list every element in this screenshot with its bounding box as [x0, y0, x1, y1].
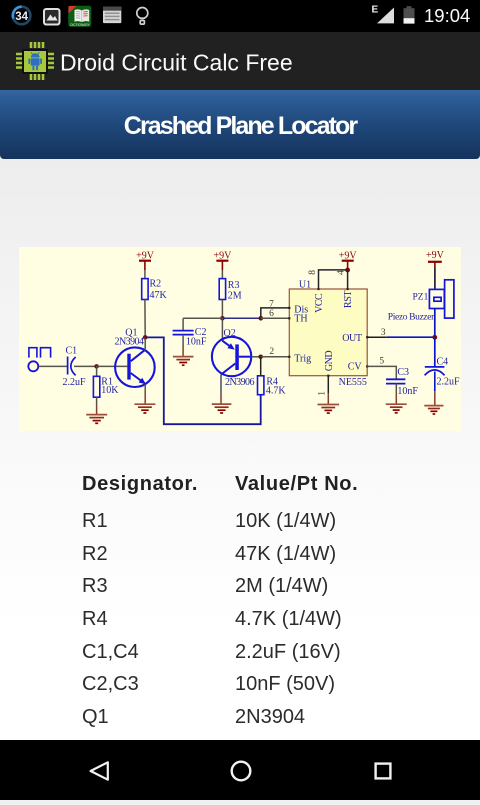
svg-text:1: 1	[317, 391, 327, 396]
app bar	[0, 32, 480, 90]
svg-text:U1: U1	[299, 279, 311, 290]
wire pin 3 OUT	[367, 336, 387, 338]
svg-text:34: 34	[15, 11, 28, 23]
input square-wave symbol	[29, 348, 51, 358]
svg-text:C3: C3	[397, 367, 409, 378]
svg-text:VCC: VCC	[314, 293, 325, 313]
wire +9V to pin 8 VCC	[319, 270, 348, 289]
wire node E to pin 2 Trig	[261, 356, 290, 358]
feedback wire node B to R4 bottom	[145, 337, 261, 424]
svg-text:Trig: Trig	[294, 353, 311, 364]
wire C4 to ground	[434, 372, 436, 392]
ground (C2)	[173, 357, 194, 366]
svg-text:NE555: NE555	[339, 377, 367, 388]
svg-text:2N3906: 2N3906	[225, 377, 254, 388]
wire PZ1 to node G	[434, 309, 436, 338]
wire node B to Q1 collector	[144, 337, 146, 350]
ground (R1)	[86, 415, 107, 424]
svg-text:10K: 10K	[101, 385, 119, 396]
wire Q2 base to node E	[251, 356, 260, 358]
svg-text:GND: GND	[324, 351, 335, 371]
svg-text:2.2uF: 2.2uF	[63, 377, 87, 388]
svg-text:4.7K: 4.7K	[266, 386, 287, 397]
svg-text:C4: C4	[437, 357, 449, 368]
svg-text:5: 5	[379, 356, 384, 366]
wire node D to pin 7 Dis	[261, 308, 290, 318]
power +9V (R2)	[136, 250, 155, 270]
svg-text:R2: R2	[150, 279, 162, 290]
wire Q1 emitter to ground	[144, 384, 146, 394]
ground (U1)	[318, 405, 340, 414]
power +9V (PZ1)	[426, 250, 445, 267]
svg-text:TH: TH	[294, 313, 307, 324]
battery	[404, 6, 415, 23]
svg-text:OUT: OUT	[342, 333, 362, 344]
wire pin 1 GND to ground	[327, 376, 329, 393]
svg-text:8: 8	[308, 270, 318, 275]
wire C2 to ground	[182, 335, 184, 345]
navigation bar	[0, 740, 480, 800]
svg-text:DICTIONARY: DICTIONARY	[70, 23, 90, 27]
transistor Q1 2N3904	[115, 347, 155, 387]
svg-text:10nF: 10nF	[186, 337, 207, 348]
svg-text:+9V: +9V	[426, 250, 445, 261]
svg-text:PZ1: PZ1	[413, 293, 429, 303]
svg-text:RST: RST	[343, 291, 354, 308]
status bar	[0, 0, 480, 32]
list notification icon	[103, 7, 121, 24]
svg-text:2N3904: 2N3904	[115, 337, 144, 348]
wire +9V to R2	[144, 270, 146, 279]
svg-text:2: 2	[269, 347, 274, 357]
wire pin 5 CV to C3	[367, 366, 396, 379]
wire node D to pin 6 TH	[261, 317, 290, 319]
recents button	[376, 764, 391, 779]
back button	[91, 762, 108, 779]
node B junction dot (Q1 collector)	[143, 335, 148, 340]
pin end pads U1	[288, 288, 368, 377]
svg-text:Piezo Buzzer: Piezo Buzzer	[388, 312, 435, 322]
wire +9V to pin 4 RST	[347, 270, 349, 289]
resistor R1	[93, 376, 99, 397]
wire C2 to node C	[183, 317, 222, 319]
power +9V (U1)	[339, 250, 358, 270]
svg-text:4: 4	[337, 270, 347, 275]
wire node C down to C2	[182, 318, 184, 330]
svg-text:2.2uF: 2.2uF	[437, 377, 461, 388]
wire +9V to R3	[221, 270, 223, 279]
svg-text:Q2: Q2	[224, 328, 236, 339]
wire node A to Q1 base	[97, 365, 128, 367]
op IC U1 NE555 body	[289, 289, 367, 376]
schematic background	[19, 247, 461, 431]
svg-text:47K: 47K	[150, 290, 168, 301]
ground (Q2)	[212, 404, 232, 413]
resistor R2	[142, 279, 148, 300]
dictionary app icon	[69, 6, 92, 27]
svg-text:C1: C1	[66, 346, 78, 357]
wire R1 to ground	[96, 397, 98, 405]
flashlight/bulb icon	[137, 8, 148, 25]
ground (C3)	[386, 404, 407, 413]
wire C3 to ground	[395, 384, 397, 394]
wire input to C1	[38, 365, 67, 367]
wire R3 to node C	[221, 300, 223, 319]
wire Q2 collector to ground	[220, 375, 222, 393]
node G junction dot	[432, 335, 437, 340]
wire node C to Q2 emitter	[221, 318, 223, 340]
ground (C4)	[424, 406, 443, 414]
content background	[0, 159, 480, 740]
svg-text:3: 3	[381, 328, 386, 338]
wire node C to node D	[222, 317, 260, 319]
svg-text:CV: CV	[348, 362, 363, 373]
screen title bar	[0, 90, 480, 159]
resistor R4	[258, 376, 264, 395]
svg-text:10nF: 10nF	[397, 386, 418, 397]
svg-text:2M: 2M	[228, 290, 242, 301]
node D junction dot	[259, 316, 264, 321]
wire R2 to node B	[144, 300, 146, 338]
home button	[232, 762, 251, 781]
svg-text:19:04: 19:04	[424, 5, 470, 26]
parts table	[0, 472, 480, 474]
capacitor C1	[68, 357, 76, 376]
wire +9V to PZ1	[434, 268, 436, 290]
piezo buzzer PZ1	[429, 280, 454, 318]
svg-text:6: 6	[269, 309, 274, 319]
capacitor C4	[425, 367, 445, 375]
node F junction dot (+9V)	[345, 268, 350, 273]
wire node E to R4	[260, 357, 262, 376]
gallery icon	[44, 9, 60, 25]
capacitor C3	[386, 379, 405, 383]
wire node G to C4	[434, 337, 436, 367]
input terminal circle	[28, 361, 38, 371]
app chip icon	[14, 40, 56, 82]
wire C1 to node A	[74, 365, 97, 367]
notification badge 34	[13, 7, 31, 25]
node E junction dot	[258, 355, 263, 360]
capacitor C2	[173, 331, 194, 335]
node A junction dot	[94, 364, 99, 369]
svg-text:E: E	[372, 5, 379, 16]
resistor R3	[219, 279, 225, 300]
transistor Q2 2N3906	[212, 337, 251, 376]
node C junction dot	[220, 316, 225, 321]
power +9V (R3)	[213, 250, 232, 270]
wire node A to R1	[96, 366, 98, 376]
circuit schematic	[19, 247, 461, 431]
signal triangle	[377, 8, 394, 24]
ground (Q1)	[134, 404, 155, 413]
